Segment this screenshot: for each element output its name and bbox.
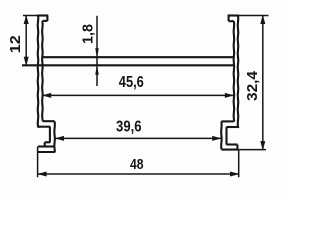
svg-text:45,6: 45,6 bbox=[119, 74, 144, 91]
svg-text:48: 48 bbox=[130, 157, 144, 173]
svg-text:1,8: 1,8 bbox=[79, 24, 96, 44]
svg-text:12: 12 bbox=[7, 35, 24, 53]
svg-text:39,6: 39,6 bbox=[116, 119, 142, 136]
svg-text:32,4: 32,4 bbox=[244, 70, 261, 101]
